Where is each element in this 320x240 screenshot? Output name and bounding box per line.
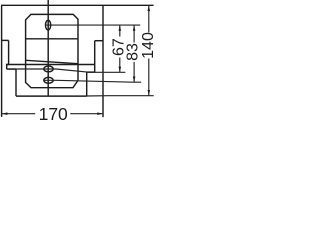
inner fold line 2: [26, 60, 78, 63]
arrow 83 top: [133, 25, 136, 31]
hole 2 extension line to 83: [44, 80, 142, 82]
left edge and left extension line of 170: [1, 5, 3, 117]
arrow 67 bottom: [119, 67, 122, 73]
right profile step left: [87, 71, 95, 73]
right profile upper vertical: [94, 41, 96, 72]
inner fold line 1: [26, 38, 78, 40]
hole ellipse 1: [44, 66, 53, 72]
arrow 170 left: [2, 112, 8, 115]
inner canopy outline: [26, 14, 78, 87]
flange line: [7, 64, 95, 66]
bottom edge: [16, 95, 87, 97]
dimension line 170 left segment: [2, 113, 36, 115]
arrow 67 top: [119, 25, 122, 31]
outer box bottom-right step: [95, 40, 103, 42]
arrow 140 top: [148, 6, 151, 12]
arrow 170 right: [97, 112, 103, 115]
hole 1 extension line to 67: [9, 69, 126, 72]
arrow 83 bottom: [133, 77, 136, 83]
hole ellipse 2: [44, 77, 53, 83]
left profile step right: [7, 68, 16, 70]
dimension line 140: [148, 5, 150, 95]
svg-text:170: 170: [39, 104, 68, 124]
left profile lower vertical: [15, 69, 17, 96]
left profile upper vertical: [8, 40, 10, 64]
right edge and right extension line of 170: [102, 5, 104, 117]
dimension line 67: [119, 25, 121, 72]
bottom extension line to 140: [87, 95, 154, 97]
outer box bottom-left step: [2, 39, 9, 41]
slot center extension line: [45, 24, 140, 26]
right profile lower vertical: [86, 72, 88, 96]
left profile small notch: [7, 65, 9, 70]
arrow 140 bottom: [148, 90, 151, 96]
dimension line 83: [133, 25, 135, 82]
centerline: [47, 0, 49, 96]
screw slot ellipse: [46, 20, 51, 30]
svg-text:140: 140: [140, 32, 157, 59]
top edge and top extension line: [1, 4, 154, 6]
dimension line 170 right segment: [70, 113, 103, 115]
